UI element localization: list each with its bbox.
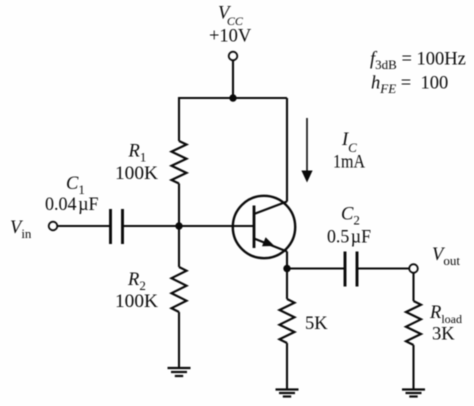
terminal Vout — [409, 264, 418, 273]
wire Rload to ground — [412, 345, 414, 390]
junction base node — [175, 222, 182, 229]
svg-text:1mA: 1mA — [333, 153, 366, 173]
svg-text:0.04 µF: 0.04 µF — [45, 195, 99, 215]
ground R2 — [168, 368, 191, 376]
ground RE — [276, 390, 299, 397]
wire C1 to base — [123, 225, 255, 227]
resistor R1 — [172, 141, 187, 184]
svg-text:+10V: +10V — [209, 27, 252, 47]
arrow IC — [301, 118, 312, 183]
wire R1 top — [178, 97, 180, 141]
wire emitter resistor top — [286, 269, 288, 300]
terminal VCC — [229, 52, 238, 61]
resistor Rload — [406, 301, 421, 345]
wire emitter to C2 — [287, 267, 345, 269]
junction emitter node — [283, 265, 290, 272]
wire top rail — [179, 97, 287, 99]
capacitor C1 — [111, 209, 123, 244]
wire collector — [286, 98, 288, 202]
ground Rload — [402, 390, 425, 397]
wire VCC to rail — [232, 61, 234, 99]
transistor Q1 — [233, 196, 295, 258]
wire R2 to ground — [178, 312, 180, 368]
wire R1 bottom — [178, 184, 180, 227]
wire Vin to C1 — [58, 225, 111, 227]
junction VCC node — [229, 94, 236, 101]
wire R2 top — [178, 226, 180, 267]
svg-text:100K: 100K — [115, 292, 159, 312]
svg-text:5K: 5K — [305, 314, 328, 334]
terminal Vin — [49, 222, 58, 231]
wire Vout to Rload — [412, 273, 414, 301]
svg-text:0.5 µF: 0.5 µF — [327, 228, 371, 248]
resistor R2 — [172, 267, 187, 312]
wire emitter — [286, 252, 288, 270]
wire C2 to Vout — [357, 267, 409, 269]
svg-text:100K: 100K — [115, 164, 159, 184]
wire RE to ground — [286, 343, 288, 390]
svg-text:3K: 3K — [432, 325, 455, 345]
resistor RE 5K — [280, 299, 295, 343]
capacitor C2 — [345, 252, 357, 287]
